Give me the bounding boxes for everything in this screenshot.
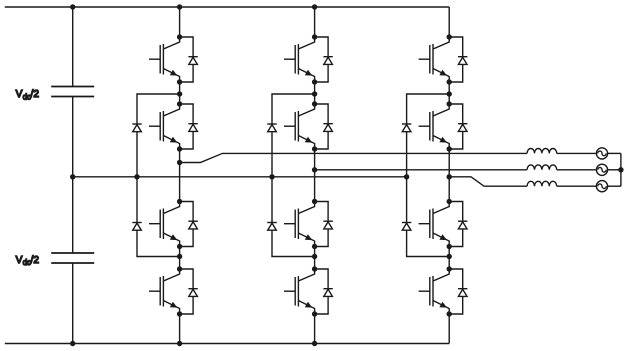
wire output C jog	[449, 177, 527, 186]
transistor Q1 (IGBT)	[149, 37, 180, 82]
wire leg b rail: Q8 to bus	[314, 314, 316, 344]
AC source VC	[596, 181, 607, 192]
svg-text:Vdc/2: Vdc/2	[16, 89, 40, 101]
diode D11 (freewheel of Q11)	[449, 202, 467, 247]
wire leg b rail: Q6 to Q7	[314, 149, 316, 202]
transistor Q11 (IGBT)	[419, 202, 450, 247]
transistor Q8 (IGBT)	[284, 269, 315, 314]
wire leg c rail: Q12 to bus	[448, 314, 450, 344]
wire output A jog	[180, 153, 527, 162]
node cap rail / positive bus	[70, 4, 75, 9]
node Q6 emitter	[312, 146, 317, 151]
node clamp midpoint leg b / neutral	[269, 174, 274, 179]
node Q7 collector	[312, 199, 317, 204]
AC source VB	[596, 164, 607, 175]
svg-text:Vdc/2: Vdc/2	[16, 255, 40, 267]
node Q11 emitter	[447, 244, 452, 249]
diode D9 (freewheel of Q9)	[449, 37, 467, 82]
capacitor C2	[51, 253, 94, 263]
AC source VA	[596, 148, 607, 159]
wire output B line	[315, 169, 527, 171]
wire line C: inductor to source	[557, 185, 597, 187]
wire leg a rail: Q4 to bus	[179, 314, 181, 344]
clamp diode D18	[402, 223, 411, 231]
clamp diode D13	[132, 124, 141, 132]
phase leg A	[132, 4, 198, 346]
node Q2 collector	[177, 101, 182, 106]
wire leg a rail: bus to Q1	[179, 7, 181, 37]
node Q2 emitter	[177, 146, 182, 151]
node clamp lower junction leg c	[447, 254, 452, 259]
wire clamp branch leg c	[407, 94, 450, 257]
wire leg b rail: bus to Q5	[314, 7, 316, 37]
wire clamp branch leg b	[272, 94, 315, 257]
node clamp midpoint leg c / neutral	[404, 174, 409, 179]
node star point	[618, 167, 623, 172]
node Q5 collector	[312, 34, 317, 39]
wire capacitor rail upper	[72, 7, 74, 87]
node Q9 emitter	[447, 79, 452, 84]
phase leg C	[402, 7, 468, 344]
node Q1 emitter	[177, 79, 182, 84]
diode D10 (freewheel of Q10)	[449, 104, 467, 149]
diode D2 (freewheel of Q2)	[180, 104, 198, 149]
wire leg c rail: Q10 to Q11	[448, 149, 450, 202]
wire leg b rail: Q7 to Q8	[314, 247, 316, 270]
node leg b / negative bus	[312, 341, 317, 346]
node leg b / positive bus	[312, 4, 317, 9]
wire negative DC bus	[5, 343, 449, 345]
diode D7 (freewheel of Q7)	[315, 202, 333, 247]
node Q8 emitter	[312, 311, 317, 316]
transistor Q10 (IGBT)	[419, 104, 450, 149]
inductor LC	[527, 181, 557, 186]
diode D12 (freewheel of Q12)	[449, 269, 467, 314]
transistor Q9 (IGBT)	[419, 37, 450, 82]
node output node B	[312, 167, 317, 172]
node Q10 collector	[447, 101, 452, 106]
node Q3 collector	[177, 199, 182, 204]
clamp diode D15	[267, 124, 276, 132]
node cap rail / negative bus	[70, 341, 75, 346]
node Q11 collector	[447, 199, 452, 204]
phase leg B	[267, 4, 333, 346]
diode D3 (freewheel of Q3)	[180, 202, 198, 247]
wire leg c rail: Q11 to Q12	[448, 247, 450, 270]
node Q5 emitter	[312, 79, 317, 84]
transistor Q5 (IGBT)	[284, 37, 315, 82]
node clamp lower junction leg a	[177, 254, 182, 259]
node Q9 collector	[447, 34, 452, 39]
wire star-point vertical	[620, 153, 622, 186]
node Q4 emitter	[177, 311, 182, 316]
node Q3 emitter	[177, 244, 182, 249]
node clamp upper junction leg b	[312, 91, 317, 96]
wire leg a rail: Q3 to Q4	[179, 247, 181, 270]
wire neutral bus	[73, 176, 407, 178]
wire line C: source to star point	[608, 185, 621, 187]
diode D1 (freewheel of Q1)	[180, 37, 198, 82]
node clamp upper junction leg c	[447, 91, 452, 96]
node Q12 collector	[447, 266, 452, 271]
wire leg a rail: Q2 to Q3	[179, 149, 181, 202]
node Q7 emitter	[312, 244, 317, 249]
transistor Q12 (IGBT)	[419, 269, 450, 314]
node Q8 collector	[312, 266, 317, 271]
transistor Q6 (IGBT)	[284, 104, 315, 149]
diode D8 (freewheel of Q8)	[315, 269, 333, 314]
wire capacitor rail middle	[72, 97, 74, 254]
wire leg c rail: Q9 to Q10	[448, 82, 450, 104]
diode D5 (freewheel of Q5)	[315, 37, 333, 82]
node leg a / negative bus	[177, 341, 182, 346]
node Q10 emitter	[447, 146, 452, 151]
node Q12 emitter	[447, 311, 452, 316]
wire line B: source to star point	[608, 169, 621, 171]
transistor Q4 (IGBT)	[149, 269, 180, 314]
clamp diode D14	[132, 223, 141, 231]
diode D6 (freewheel of Q6)	[315, 104, 333, 149]
node Q4 collector	[177, 266, 182, 271]
transistor Q7 (IGBT)	[284, 202, 315, 247]
wire capacitor rail lower	[72, 263, 74, 344]
capacitor C1	[51, 87, 94, 97]
diode D4 (freewheel of Q4)	[180, 269, 198, 314]
clamp diode D17	[402, 124, 411, 132]
node cap midpoint / neutral	[70, 174, 75, 179]
inductor LB	[527, 165, 557, 170]
node clamp upper junction leg a	[177, 91, 182, 96]
wire line A: inductor to source	[557, 152, 597, 154]
node output node C	[447, 174, 452, 179]
transistor Q2 (IGBT)	[149, 104, 180, 149]
node clamp midpoint leg a / neutral	[134, 174, 139, 179]
wire leg b rail: Q5 to Q6	[314, 82, 316, 104]
transistor Q3 (IGBT)	[149, 202, 180, 247]
node Q6 collector	[312, 101, 317, 106]
node Q1 collector	[177, 34, 182, 39]
inductor LA	[527, 149, 557, 154]
wire line A: source to star point	[608, 152, 621, 154]
wire leg c rail: bus to Q9	[448, 7, 450, 37]
node clamp lower junction leg b	[312, 254, 317, 259]
node output node A	[177, 160, 182, 165]
wire clamp branch leg a	[137, 94, 180, 257]
node leg a / positive bus	[177, 4, 182, 9]
clamp diode D16	[267, 223, 276, 231]
wire positive DC bus	[5, 6, 449, 8]
wire leg a rail: Q1 to Q2	[179, 82, 181, 104]
wire line B: inductor to source	[557, 169, 597, 171]
